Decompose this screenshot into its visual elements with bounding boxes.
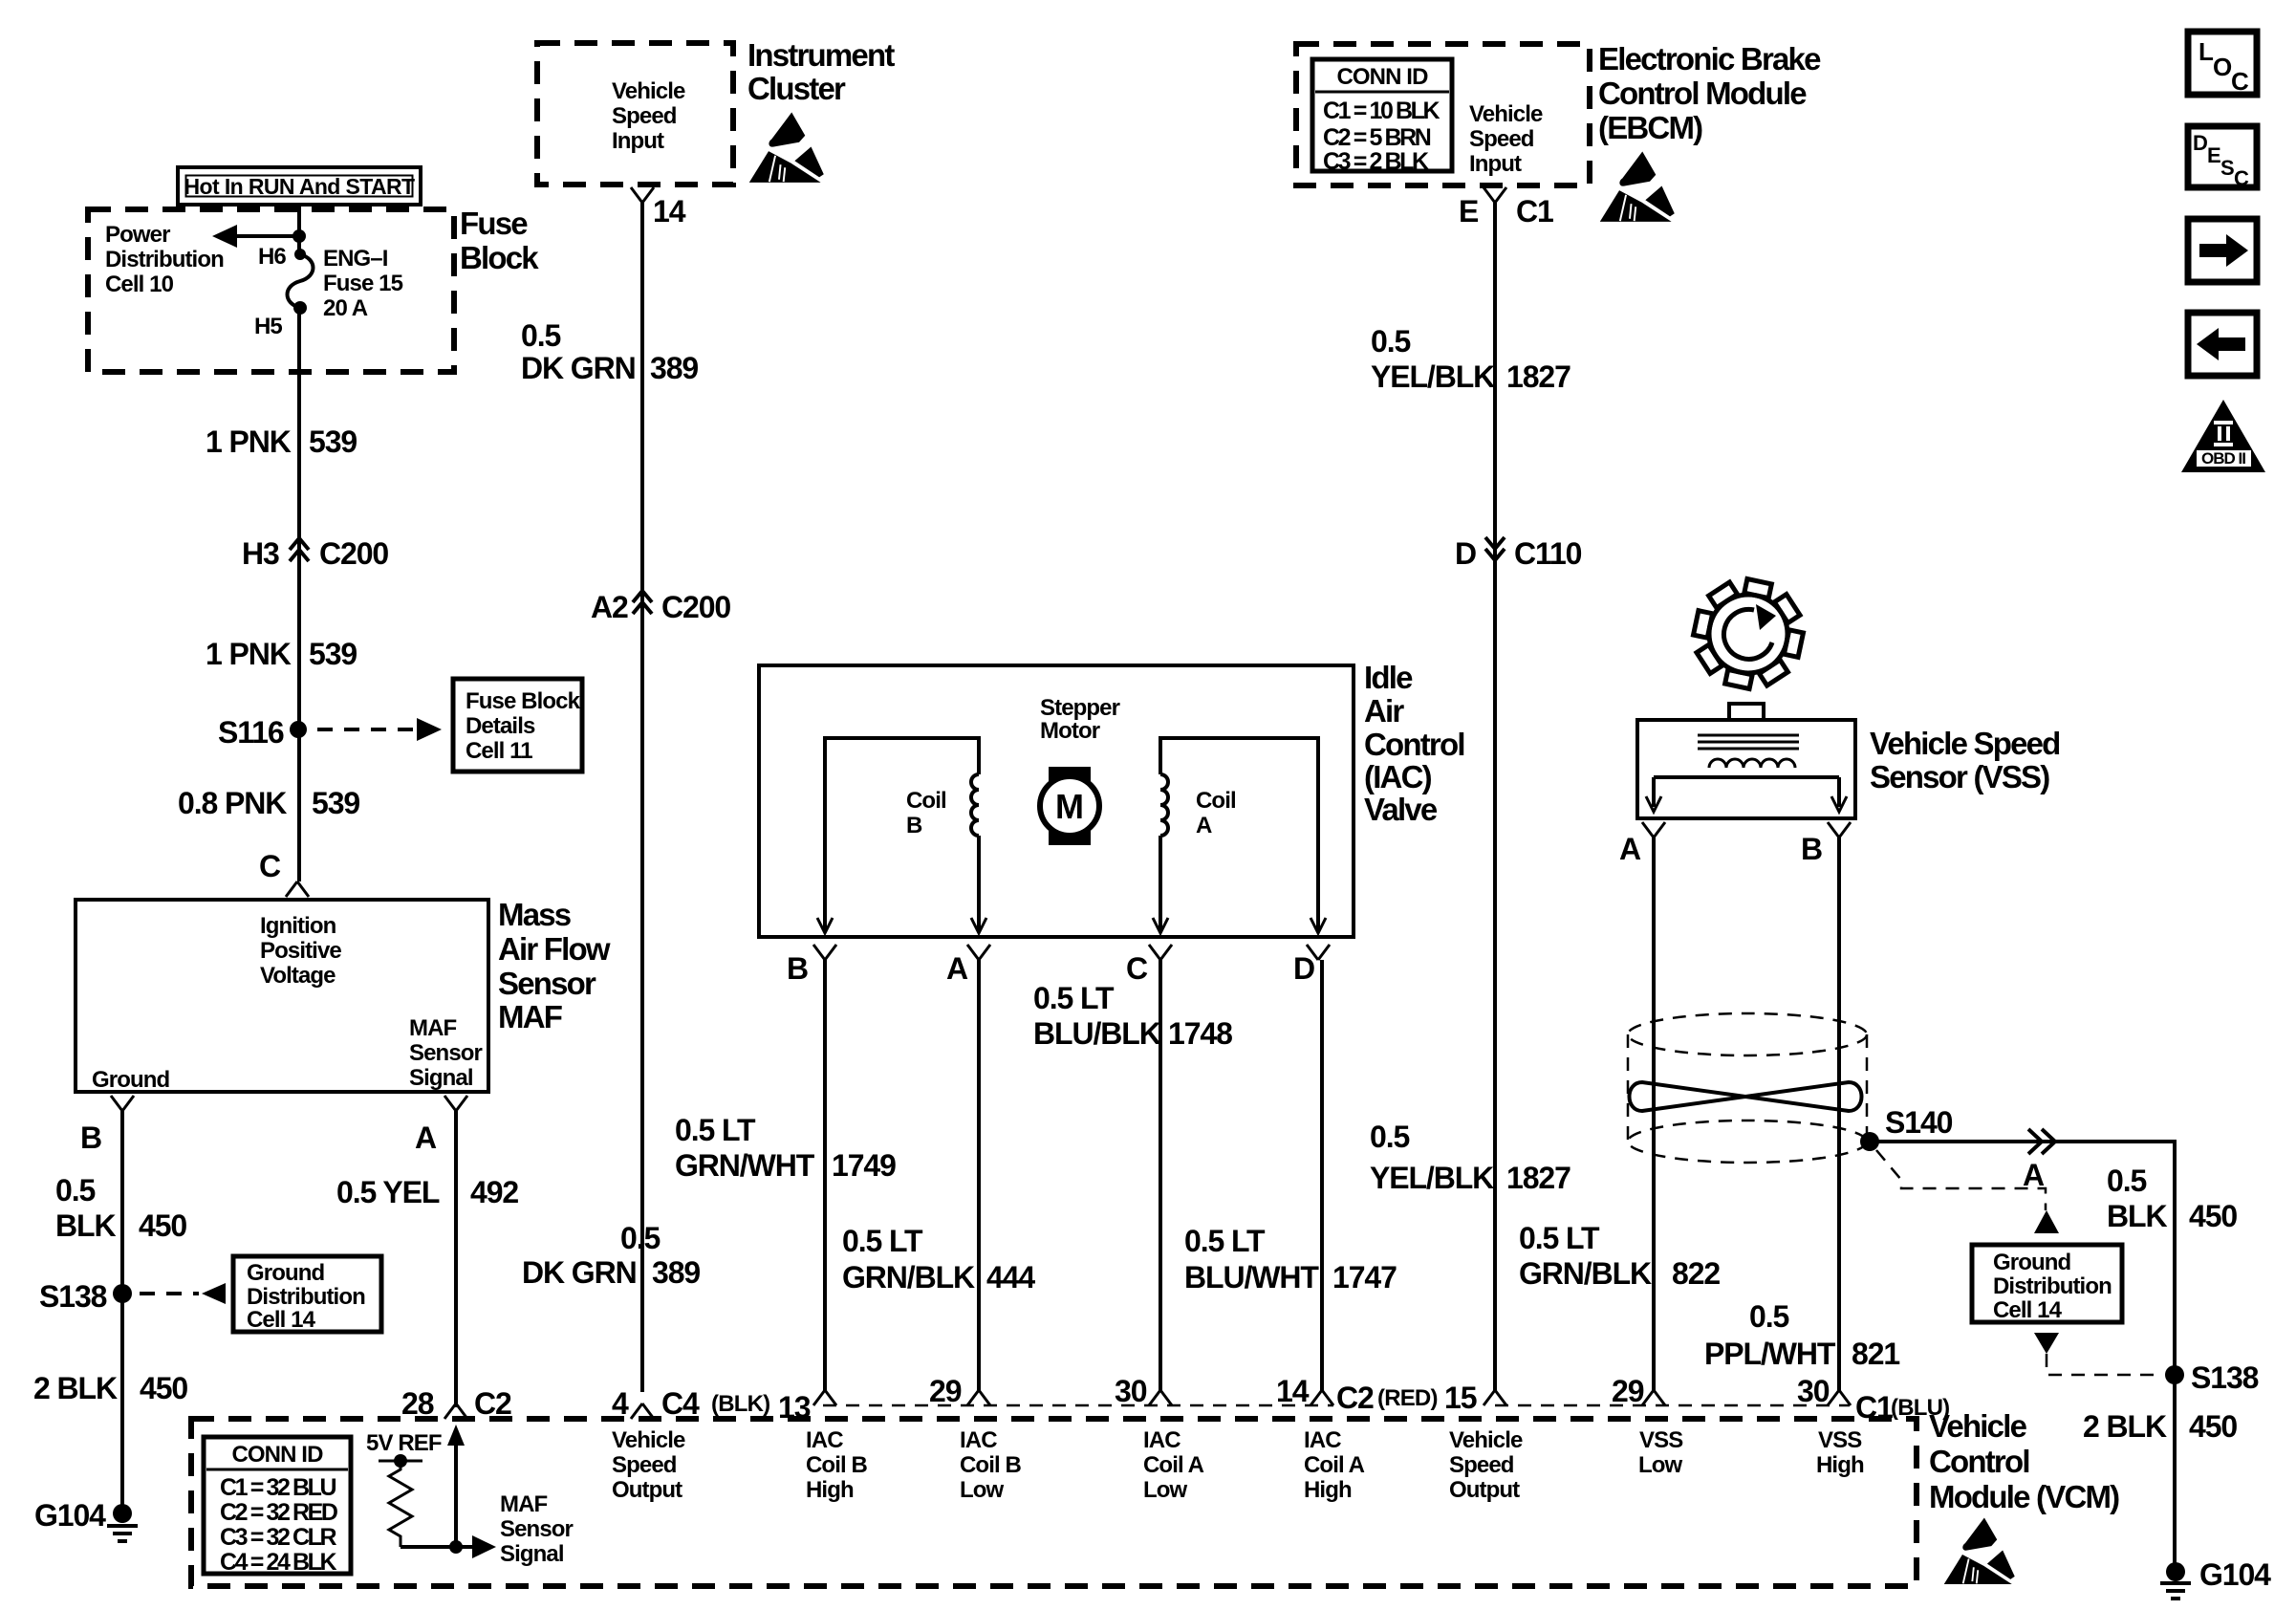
svg-text:28: 28 — [401, 1386, 434, 1421]
svg-text:Control: Control — [1929, 1444, 2029, 1479]
svg-text:0.5 LT: 0.5 LT — [1519, 1221, 1600, 1255]
reluctor gear symbol — [1694, 579, 1804, 689]
svg-text:0.5 LT: 0.5 LT — [1033, 981, 1115, 1015]
fuse F15 ENG-I symbol — [294, 249, 306, 260]
svg-text:450: 450 — [140, 1371, 187, 1405]
svg-text:0.8 PNK: 0.8 PNK — [178, 786, 287, 820]
svg-text:1749: 1749 — [832, 1148, 896, 1183]
svg-text:GRN/BLK: GRN/BLK — [842, 1260, 975, 1295]
svg-text:S: S — [2220, 156, 2235, 180]
connector C2(RED) pin strip (thin dashed) — [823, 1404, 1333, 1407]
svg-text:Speed: Speed — [612, 1452, 677, 1478]
instrument cluster dashed box — [537, 43, 733, 185]
svg-text:Low: Low — [1638, 1452, 1683, 1478]
splice S138 — [113, 1284, 132, 1303]
svg-text:C3 = 32 CLR: C3 = 32 CLR — [220, 1524, 337, 1551]
svg-text:VSS: VSS — [1818, 1427, 1862, 1453]
pin 14 connector — [631, 187, 654, 203]
svg-text:ENG–I: ENG–I — [323, 246, 388, 272]
svg-text:C1 = 32 BLU: C1 = 32 BLU — [220, 1474, 336, 1501]
svg-text:29: 29 — [929, 1374, 962, 1408]
svg-text:Idle: Idle — [1364, 660, 1413, 695]
pin A connector — [444, 1096, 467, 1111]
ground distribution reference box (right) — [1972, 1245, 2122, 1322]
pin A connector — [1642, 822, 1665, 838]
VSS box — [1729, 704, 1764, 720]
svg-text:Block: Block — [460, 240, 539, 275]
svg-text:Cell 14: Cell 14 — [1993, 1297, 2063, 1323]
svg-text:High: High — [1304, 1477, 1352, 1503]
svg-text:29: 29 — [1612, 1374, 1644, 1408]
svg-text:G104: G104 — [2199, 1557, 2271, 1592]
svg-text:444: 444 — [986, 1260, 1035, 1295]
svg-text:0.5: 0.5 — [2107, 1164, 2146, 1198]
svg-text:C: C — [2231, 67, 2249, 96]
coil B arrows — [817, 918, 833, 933]
arrow to power distribution — [226, 234, 299, 238]
svg-text:C: C — [259, 849, 281, 883]
svg-text:Coil B: Coil B — [806, 1452, 867, 1478]
ESD symbol — [1944, 1517, 2015, 1584]
svg-text:Ground: Ground — [1993, 1250, 2070, 1275]
svg-text:C2 = 5 BRN: C2 = 5 BRN — [1323, 124, 1431, 151]
ESD symbol — [1600, 152, 1675, 222]
dashed drain wire S140 to ground distribution — [1876, 1150, 2046, 1210]
svg-text:Vehicle: Vehicle — [1469, 101, 1543, 127]
svg-text:30: 30 — [1115, 1374, 1147, 1408]
coil B winding — [825, 738, 979, 932]
svg-text:(IAC): (IAC) — [1364, 759, 1432, 794]
svg-text:D: D — [2193, 131, 2208, 155]
twist symbol — [1630, 1082, 1862, 1111]
svg-text:A2: A2 — [591, 590, 628, 624]
svg-text:0.5 LT: 0.5 LT — [675, 1113, 756, 1147]
svg-text:Signal: Signal — [409, 1065, 473, 1091]
svg-text:B: B — [80, 1120, 101, 1155]
svg-text:Fuse 15: Fuse 15 — [323, 271, 403, 296]
svg-text:Signal: Signal — [500, 1541, 564, 1567]
svg-text:C1: C1 — [1855, 1390, 1893, 1425]
svg-text:2 BLK: 2 BLK — [2083, 1409, 2167, 1444]
svg-text:Cluster: Cluster — [747, 71, 846, 106]
CONN ID table (EBCM) — [1312, 59, 1452, 171]
svg-text:Coil B: Coil B — [960, 1452, 1021, 1478]
pin D connector — [1307, 945, 1330, 960]
svg-text:DK GRN: DK GRN — [522, 1255, 637, 1290]
svg-text:389: 389 — [650, 351, 698, 385]
VCM dashed box — [191, 1419, 1917, 1586]
svg-text:1827: 1827 — [1506, 1161, 1570, 1195]
svg-text:D: D — [1455, 536, 1476, 571]
svg-text:Coil A: Coil A — [1304, 1452, 1365, 1478]
svg-text:Coil: Coil — [906, 788, 946, 814]
svg-text:0.5: 0.5 — [1749, 1299, 1788, 1334]
svg-text:E: E — [2207, 143, 2221, 167]
svg-text:BLU/BLK: BLU/BLK — [1033, 1016, 1161, 1051]
svg-text:Instrument: Instrument — [747, 37, 895, 73]
svg-text:Sensor (VSS): Sensor (VSS) — [1870, 759, 2049, 794]
svg-text:C1 = 10 BLK: C1 = 10 BLK — [1323, 98, 1440, 124]
svg-text:Control: Control — [1364, 727, 1464, 762]
svg-text:821: 821 — [1852, 1337, 1899, 1371]
svg-text:Details: Details — [466, 713, 535, 739]
splice S138 (right) — [2165, 1365, 2184, 1384]
svg-text:Sensor: Sensor — [500, 1516, 574, 1542]
wire VSS high (B to VCM pin 30) — [1837, 838, 1841, 1392]
pin B connector — [1828, 822, 1851, 838]
svg-text:Distribution: Distribution — [247, 1284, 365, 1310]
svg-text:IAC: IAC — [1304, 1427, 1341, 1453]
svg-text:C4: C4 — [661, 1386, 700, 1421]
svg-text:5V REF: 5V REF — [366, 1430, 442, 1456]
twisted pair shield (dashed) — [1628, 1013, 1867, 1055]
svg-text:Distribution: Distribution — [1993, 1273, 2112, 1299]
pin 28 arrow up — [447, 1425, 465, 1446]
svg-text:Vehicle: Vehicle — [612, 78, 685, 104]
svg-text:Vehicle Speed: Vehicle Speed — [1870, 726, 2060, 761]
svg-text:450: 450 — [2189, 1409, 2237, 1444]
svg-text:A: A — [1619, 832, 1641, 866]
svg-text:Voltage: Voltage — [260, 963, 336, 989]
svg-text:YEL/BLK: YEL/BLK — [1370, 1161, 1494, 1195]
wire 1 PNK 539 down from fuse — [297, 308, 301, 881]
CONN ID table (VCM) — [204, 1437, 351, 1574]
svg-text:B: B — [787, 951, 808, 986]
pin B connector — [111, 1096, 134, 1111]
svg-text:S116: S116 — [218, 715, 284, 750]
svg-text:1827: 1827 — [1506, 359, 1570, 394]
connector C1(BLU) pin strip (thin dashed) — [1495, 1404, 1850, 1407]
fuse block details reference box — [453, 679, 582, 772]
pin A connector — [967, 945, 990, 960]
ESD symbol — [749, 113, 824, 183]
svg-text:MAF: MAF — [409, 1015, 457, 1041]
svg-text:B: B — [906, 813, 922, 838]
svg-text:BLK: BLK — [55, 1208, 116, 1243]
svg-text:A: A — [1196, 813, 1212, 838]
svg-text:Ignition: Ignition — [260, 913, 336, 939]
svg-text:Cell 10: Cell 10 — [105, 272, 174, 297]
svg-text:Ground: Ground — [92, 1067, 169, 1093]
svg-text:0.5 YEL: 0.5 YEL — [336, 1175, 440, 1209]
svg-text:1 PNK: 1 PNK — [206, 424, 292, 459]
svg-text:C200: C200 — [319, 536, 388, 571]
svg-text:Vehicle: Vehicle — [612, 1427, 685, 1453]
svg-text:Output: Output — [1449, 1477, 1520, 1503]
svg-text:Fuse: Fuse — [460, 206, 528, 241]
svg-text:C110: C110 — [1514, 536, 1582, 571]
svg-text:C: C — [1126, 951, 1148, 986]
pin C connector — [1149, 945, 1172, 960]
wire from Hot box into fuse block — [297, 204, 301, 252]
svg-text:Positive: Positive — [260, 938, 341, 964]
ground G104 — [113, 1504, 132, 1523]
svg-text:C4 = 24 BLK: C4 = 24 BLK — [220, 1549, 337, 1576]
svg-text:2 BLK: 2 BLK — [33, 1371, 118, 1405]
svg-text:539: 539 — [309, 637, 357, 671]
svg-text:0.5: 0.5 — [1371, 324, 1410, 359]
svg-text:492: 492 — [470, 1175, 518, 1209]
svg-text:GRN/WHT: GRN/WHT — [675, 1148, 815, 1183]
svg-text:Speed: Speed — [612, 103, 677, 129]
arrow-right icon — [2188, 219, 2257, 282]
wire S140 to 0.5 BLK 450 — [1870, 1142, 2175, 1573]
svg-text:Module (VCM): Module (VCM) — [1929, 1479, 2119, 1514]
arrow-left icon — [2188, 313, 2257, 376]
svg-text:Air: Air — [1364, 693, 1404, 729]
pickup coil winding — [1709, 759, 1795, 768]
svg-text:(BLK): (BLK) — [711, 1391, 769, 1417]
wire IAC C to VCM pin 30 — [1159, 960, 1162, 1392]
wire VSS low (A to VCM pin 29) — [1652, 838, 1656, 1392]
svg-text:0.5: 0.5 — [1370, 1120, 1409, 1154]
svg-text:Cell 14: Cell 14 — [247, 1307, 316, 1333]
svg-text:S138: S138 — [2191, 1360, 2259, 1395]
wire IAC D to VCM pin 14 — [1320, 960, 1324, 1392]
internal wires with arrows — [1654, 777, 1839, 807]
inline connector A (>>) — [2028, 1129, 2055, 1154]
svg-text:IAC: IAC — [1143, 1427, 1180, 1453]
svg-text:GRN/BLK: GRN/BLK — [1519, 1256, 1652, 1291]
svg-text:VSS: VSS — [1639, 1427, 1683, 1453]
ground distribution reference box — [233, 1256, 381, 1332]
IAC valve box — [759, 665, 1354, 937]
svg-text:(RED): (RED) — [1377, 1385, 1438, 1411]
stepper motor M symbol — [1049, 767, 1091, 845]
svg-text:13: 13 — [778, 1390, 811, 1425]
svg-text:14: 14 — [1276, 1374, 1310, 1408]
svg-text:0.5: 0.5 — [620, 1221, 660, 1255]
svg-text:S138: S138 — [39, 1279, 107, 1314]
svg-text:C200: C200 — [661, 590, 730, 624]
svg-text:0.5 LT: 0.5 LT — [1184, 1224, 1266, 1258]
splice S116 — [290, 721, 307, 738]
pickup coil core — [1698, 735, 1799, 749]
svg-text:PPL/WHT: PPL/WHT — [1704, 1337, 1836, 1371]
svg-text:Low: Low — [960, 1477, 1005, 1503]
fuse block dashed box — [88, 209, 454, 372]
svg-text:Coil A: Coil A — [1143, 1452, 1204, 1478]
svg-text:1 PNK: 1 PNK — [206, 637, 292, 671]
svg-text:539: 539 — [312, 786, 359, 820]
svg-text:20 A: 20 A — [323, 295, 368, 321]
svg-text:Hot In RUN And START: Hot In RUN And START — [184, 174, 416, 199]
svg-text:30: 30 — [1797, 1374, 1830, 1408]
ground G104 (right) — [2166, 1562, 2185, 1581]
svg-text:Output: Output — [612, 1477, 682, 1503]
svg-text:A: A — [415, 1120, 437, 1155]
svg-text:15: 15 — [1444, 1381, 1477, 1415]
svg-text:A: A — [946, 951, 968, 986]
svg-text:Vehicle: Vehicle — [1449, 1427, 1523, 1453]
svg-text:MAF: MAF — [500, 1491, 548, 1517]
svg-text:CONN ID: CONN ID — [1336, 64, 1428, 90]
svg-text:High: High — [1816, 1452, 1864, 1478]
svg-text:0.5 LT: 0.5 LT — [842, 1224, 923, 1258]
wire IAC A to VCM pin 29 — [977, 960, 981, 1392]
svg-text:Motor: Motor — [1040, 718, 1100, 744]
wire 0.5 DK GRN 389 (cluster to VCM pin 4) — [640, 203, 644, 1392]
svg-text:Input: Input — [1469, 151, 1522, 177]
svg-text:Fuse Block: Fuse Block — [466, 688, 581, 714]
coil A winding — [1159, 836, 1162, 932]
node H6 junction — [292, 229, 306, 243]
svg-text:822: 822 — [1672, 1256, 1720, 1291]
svg-text:O: O — [2213, 53, 2232, 81]
svg-text:C2 = 32 RED: C2 = 32 RED — [220, 1499, 337, 1526]
svg-text:Vehicle: Vehicle — [1929, 1408, 2027, 1444]
MAF sensor box — [76, 900, 488, 1092]
svg-text:High: High — [806, 1477, 854, 1503]
svg-text:539: 539 — [309, 424, 357, 459]
svg-text:C3 = 2 BLK: C3 = 2 BLK — [1323, 148, 1429, 175]
svg-text:4: 4 — [612, 1386, 629, 1421]
svg-text:S140: S140 — [1885, 1105, 1953, 1140]
svg-text:14: 14 — [653, 194, 686, 228]
wire IAC B to VCM pin 13 — [823, 960, 827, 1392]
svg-text:D: D — [1293, 951, 1314, 986]
svg-text:IAC: IAC — [806, 1427, 843, 1453]
splice S140 — [1860, 1132, 1879, 1151]
svg-text:0.5: 0.5 — [521, 318, 560, 353]
pin B connector — [813, 945, 836, 960]
svg-text:E: E — [1459, 194, 1479, 228]
svg-text:B: B — [1801, 832, 1822, 866]
svg-text:OBD II: OBD II — [2201, 449, 2245, 468]
svg-text:Input: Input — [612, 128, 664, 154]
svg-text:Power: Power — [105, 222, 170, 248]
svg-text:YEL/BLK: YEL/BLK — [1371, 359, 1495, 394]
wire 0.5 BLK 450 (MAF ground) — [120, 1111, 124, 1513]
svg-text:Cell 11: Cell 11 — [466, 738, 532, 764]
wire 0.5 YEL 492 (MAF signal to VCM pin 28) — [454, 1111, 458, 1407]
OBD II icon — [2181, 400, 2265, 472]
svg-text:Electronic Brake: Electronic Brake — [1598, 41, 1821, 76]
svg-text:BLK: BLK — [2107, 1199, 2167, 1233]
svg-text:450: 450 — [139, 1208, 186, 1243]
svg-text:Ground: Ground — [247, 1260, 324, 1286]
EBCM dashed box — [1296, 44, 1590, 185]
svg-text:Mass: Mass — [498, 897, 571, 932]
wire 0.5 YEL/BLK 1827 (EBCM to VCM pin 15) — [1493, 203, 1497, 1392]
svg-text:1748: 1748 — [1168, 1016, 1232, 1051]
coil A arrows — [1153, 918, 1168, 933]
svg-text:Sensor: Sensor — [409, 1040, 483, 1066]
svg-text:DK GRN: DK GRN — [521, 351, 636, 385]
svg-text:H6: H6 — [258, 244, 286, 270]
svg-text:C2: C2 — [474, 1386, 511, 1421]
svg-text:H5: H5 — [254, 314, 282, 339]
svg-text:C1: C1 — [1516, 194, 1553, 228]
svg-text:Sensor: Sensor — [498, 966, 596, 1001]
svg-text:C2: C2 — [1336, 1381, 1374, 1415]
svg-text:Air Flow: Air Flow — [498, 931, 611, 967]
svg-text:Low: Low — [1143, 1477, 1188, 1503]
svg-text:M: M — [1055, 787, 1084, 826]
svg-text:Control Module: Control Module — [1598, 76, 1807, 111]
svg-text:C: C — [2234, 166, 2249, 190]
svg-text:Speed: Speed — [1469, 126, 1534, 152]
wire to MAF sensor signal — [401, 1545, 473, 1549]
svg-text:A: A — [2023, 1158, 2045, 1192]
svg-text:0.5: 0.5 — [55, 1173, 95, 1207]
svg-text:BLU/WHT: BLU/WHT — [1184, 1260, 1319, 1295]
resistor — [389, 1461, 412, 1547]
svg-text:389: 389 — [652, 1255, 700, 1290]
svg-text:Stepper: Stepper — [1040, 695, 1120, 721]
label box "Hot In RUN And START" — [178, 167, 421, 205]
LOC icon — [2188, 32, 2257, 95]
svg-text:IAC: IAC — [960, 1427, 997, 1453]
svg-text:Distribution: Distribution — [105, 247, 224, 272]
svg-text:450: 450 — [2189, 1199, 2237, 1233]
svg-text:L: L — [2199, 37, 2214, 66]
svg-text:Speed: Speed — [1449, 1452, 1514, 1478]
svg-text:MAF: MAF — [498, 999, 562, 1034]
svg-text:(EBCM): (EBCM) — [1598, 110, 1702, 145]
svg-text:1747: 1747 — [1332, 1260, 1397, 1295]
DESC icon — [2188, 126, 2257, 187]
svg-text:G104: G104 — [34, 1498, 106, 1533]
svg-text:Coil: Coil — [1196, 788, 1236, 814]
svg-text:CONN ID: CONN ID — [231, 1442, 323, 1468]
svg-text:Valve: Valve — [1364, 792, 1438, 827]
svg-text:H3: H3 — [242, 536, 279, 571]
